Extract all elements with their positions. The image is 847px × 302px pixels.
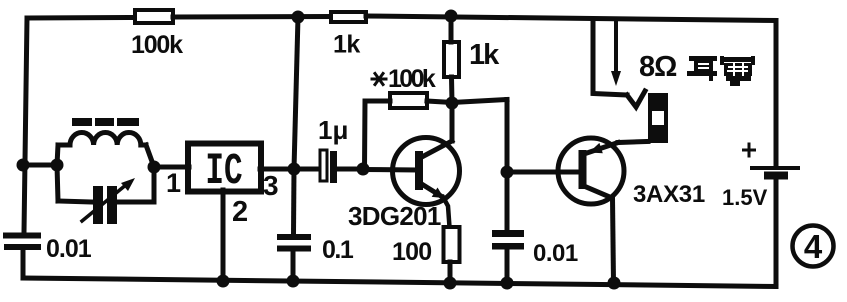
star of *100k label <box>372 74 386 85</box>
svg-text:3: 3 <box>263 170 279 201</box>
pin label 1 <box>166 168 181 198</box>
IC U1 box <box>188 144 261 192</box>
wire left rail lower <box>21 250 26 278</box>
svg-text:1: 1 <box>166 168 181 198</box>
transistor Q1 3DG201 circle <box>393 138 460 205</box>
wire 0.01 cap to bottom rail <box>505 249 510 283</box>
variable capacitor arrow <box>82 178 135 221</box>
wire right rail lower <box>774 179 779 287</box>
svg-text:3DG201: 3DG201 <box>348 201 441 231</box>
wire top rail middle segment <box>173 14 331 20</box>
inductor core dash 2 <box>95 118 114 126</box>
node dot top rail at x298 <box>292 11 305 24</box>
wire 100 resistor to bottom rail <box>448 262 453 283</box>
resistor 100k <box>135 10 173 23</box>
wire bottom rail <box>23 278 776 287</box>
capacitor 0.1 plate top <box>277 234 311 240</box>
svg-text:8Ω: 8Ω <box>639 51 677 83</box>
node dot bottom rail 0.1 <box>287 275 300 288</box>
node dot bottom rail 0.01 <box>501 277 514 290</box>
svg-text:0.01: 0.01 <box>533 240 578 267</box>
inductor core dash 3 <box>117 118 139 126</box>
variable capacitor plate 1 <box>93 186 103 224</box>
wire IC pin2 to bottom rail <box>221 190 226 281</box>
capacitor 0.01 right plate top <box>492 230 524 237</box>
label 100k of *100k <box>388 65 436 93</box>
resistor *100k <box>390 93 427 108</box>
resistor 100 <box>444 227 460 262</box>
hanzi sai (plug) <box>720 56 755 86</box>
LC tank bottom side right part <box>117 200 154 205</box>
resistor 1k horizontal <box>331 12 366 22</box>
node dot tank left <box>51 159 64 172</box>
node dot top rail at x451 <box>445 10 458 23</box>
svg-text:1k: 1k <box>333 31 360 59</box>
wire pin3 node down to 0.1 cap <box>291 169 297 234</box>
node dot tank right <box>148 161 161 174</box>
label 0.01 right <box>533 240 578 267</box>
svg-text:0.01: 0.01 <box>46 235 92 263</box>
transistor Q1 emitter stroke with arrow <box>420 183 450 227</box>
svg-text:100k: 100k <box>131 31 183 59</box>
wire top rail left segment <box>27 15 135 21</box>
svg-text:100k: 100k <box>388 65 436 93</box>
node dot bottom rail pin2 <box>217 275 230 288</box>
svg-text:4: 4 <box>804 228 823 265</box>
wire IC pin1 <box>154 165 189 170</box>
svg-text:0.1: 0.1 <box>322 236 354 264</box>
transistor Q2 collector stroke <box>584 186 612 198</box>
wire top rail to earphone spring <box>593 21 627 96</box>
label 8 ohm earphone <box>639 51 677 83</box>
wire vertical from top rail to IC pin3 node <box>294 17 298 169</box>
wire 1k vertical bottom lead <box>449 77 455 103</box>
wire left rail to tank <box>23 163 57 168</box>
earphone spring contact V <box>627 91 645 107</box>
wire 0.1 cap to bottom rail <box>291 251 296 281</box>
wire right branch down to Q2 base node <box>505 100 510 173</box>
battery plus sign <box>744 144 755 156</box>
IC label <box>205 146 242 197</box>
wire right rail upper <box>774 21 779 167</box>
label 1.5V <box>722 185 768 210</box>
wire *100k right lead <box>427 101 452 103</box>
resistor 1k vertical <box>444 42 459 77</box>
wire 1k vertical top lead <box>449 16 454 42</box>
svg-text:1.5V: 1.5V <box>722 185 768 210</box>
wire *100k left lead <box>365 101 391 169</box>
capacitor 0.01 right plate bottom <box>492 243 524 250</box>
transistor Q1 collector stroke <box>420 141 452 158</box>
earphone jack window <box>652 111 664 125</box>
node dot Q2 base branch <box>501 166 514 179</box>
LC tank bottom side left part <box>58 201 93 202</box>
node dot bottom rail 100 <box>444 277 457 290</box>
transistor Q1 base bar <box>415 151 423 190</box>
svg-text:100: 100 <box>392 238 431 266</box>
label 100 <box>392 238 431 266</box>
label 3DG201 <box>348 201 441 231</box>
label arrow to earphone <box>611 23 621 86</box>
hanzi er (ear) <box>687 56 717 81</box>
LC tank right side <box>146 145 154 202</box>
node dot pin3 <box>288 163 301 176</box>
capacitor 1u plate 2 <box>330 151 337 183</box>
capacitor 0.1 plate bottom <box>277 246 311 252</box>
wire base node to Q1 base <box>363 167 416 173</box>
pin label 3 <box>263 170 279 201</box>
label 3AX31 <box>633 181 705 208</box>
svg-text:2: 2 <box>232 196 248 228</box>
wire collector node to right branch <box>452 100 507 103</box>
capacitor 0.01 left plate bottom <box>4 244 41 250</box>
svg-text:3AX31: 3AX31 <box>633 181 705 208</box>
capacitor 0.01 left plate top <box>3 233 41 239</box>
LC tank left side <box>57 145 58 201</box>
label 1u <box>318 115 348 145</box>
transistor Q2 base bar <box>579 150 587 189</box>
wire Q1 collector <box>450 103 455 141</box>
wire left rail upper <box>24 18 27 232</box>
node dot bottom rail Q2 <box>608 277 621 290</box>
label 1k vertical <box>469 39 500 71</box>
wire Q2 collector to bottom rail <box>613 198 614 283</box>
inductor core dash 1 <box>72 118 92 126</box>
label 1k horizontal <box>333 31 360 59</box>
capacitor 1u plate 1 <box>320 150 327 181</box>
node dot Q1 base branch <box>357 163 370 176</box>
pin label 2 <box>232 196 248 228</box>
wire Q2 emitter to earphone jack <box>618 142 648 143</box>
earphone jack body <box>648 93 668 143</box>
label 100k <box>131 31 183 59</box>
node dot left rail tank feed <box>17 159 30 172</box>
label 0.1 <box>322 236 354 264</box>
transistor Q2 3AX31 circle <box>558 138 624 204</box>
wire IC pin3 <box>260 167 294 172</box>
variable capacitor plate 2 <box>107 186 117 224</box>
svg-text:1k: 1k <box>469 39 500 71</box>
wire 1u cap to base node <box>337 167 363 172</box>
inductor L coil <box>58 133 146 146</box>
transistor Q2 emitter stroke with inward arrow <box>584 143 618 155</box>
wire Q2 base node down to 0.01 cap <box>505 172 510 230</box>
label 0.01 left <box>46 235 92 263</box>
wire Q2 base <box>507 170 579 175</box>
figure number circled 4 <box>793 226 834 267</box>
svg-text:1μ: 1μ <box>318 115 348 145</box>
wire top rail right segment <box>366 16 776 21</box>
battery positive plate <box>752 166 798 170</box>
wire pin3 node to 1u cap <box>294 167 320 172</box>
node dot collector branch <box>446 97 459 110</box>
battery negative plate <box>764 172 788 180</box>
